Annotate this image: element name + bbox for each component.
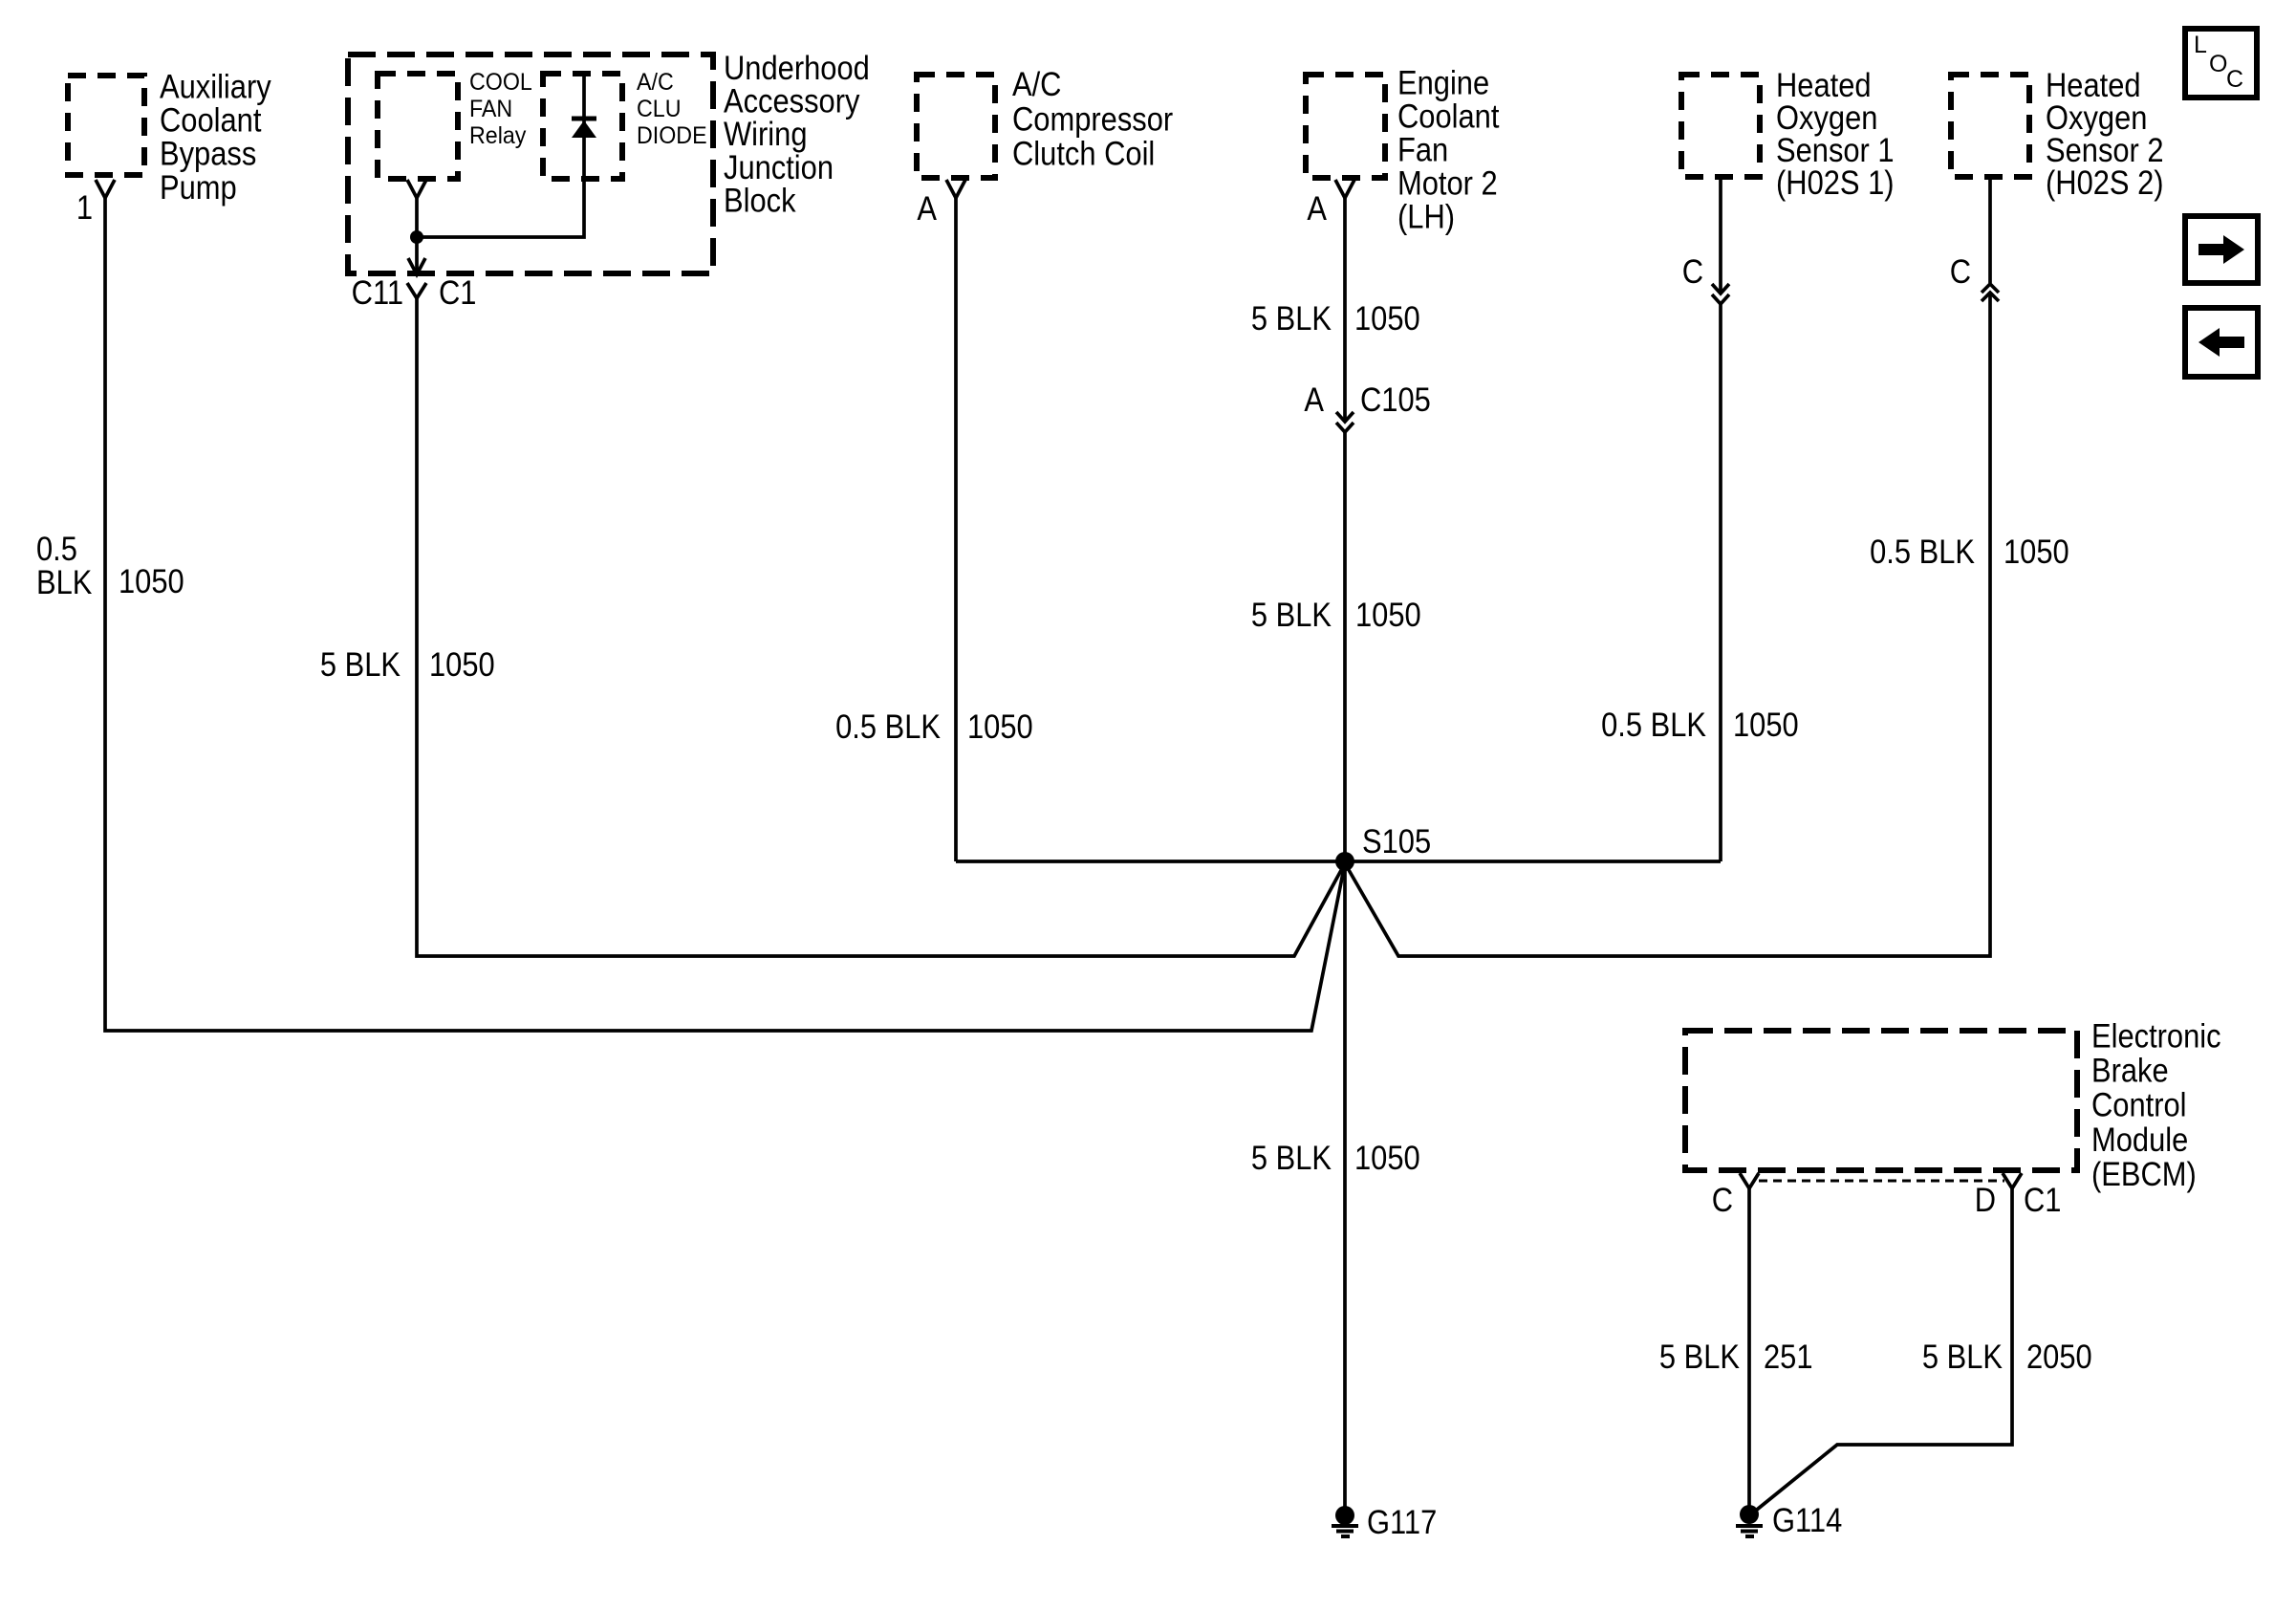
svg-text:BLK: BLK (36, 564, 92, 601)
svg-text:A/C: A/C (637, 69, 674, 96)
svg-text:D: D (1975, 1182, 1996, 1219)
svg-text:C11: C11 (352, 274, 403, 312)
svg-text:C: C (1712, 1182, 1733, 1219)
svg-text:1050: 1050 (1354, 1140, 1420, 1177)
svg-text:5 BLK: 5 BLK (1251, 597, 1332, 634)
svg-text:COOL: COOL (469, 69, 532, 96)
svg-text:O: O (2209, 51, 2227, 77)
svg-text:Brake: Brake (2091, 1053, 2169, 1090)
svg-text:Bypass: Bypass (160, 136, 256, 173)
svg-text:(H02S 2): (H02S 2) (2046, 164, 2164, 202)
svg-text:Electronic: Electronic (2091, 1017, 2221, 1055)
svg-text:A: A (917, 190, 937, 228)
svg-text:0.5 BLK: 0.5 BLK (1601, 707, 1706, 744)
svg-text:Motor 2: Motor 2 (1397, 165, 1498, 203)
svg-text:C: C (2226, 66, 2243, 93)
svg-text:Engine: Engine (1397, 65, 1489, 102)
svg-text:(H02S 1): (H02S 1) (1776, 164, 1895, 202)
svg-text:5 BLK: 5 BLK (1659, 1339, 1740, 1376)
svg-text:1050: 1050 (967, 708, 1033, 746)
svg-text:Coolant: Coolant (160, 102, 261, 140)
svg-text:Clutch Coil: Clutch Coil (1012, 136, 1155, 173)
svg-text:FAN: FAN (469, 96, 512, 122)
svg-text:5 BLK: 5 BLK (1922, 1339, 2003, 1376)
svg-text:A: A (1307, 190, 1327, 228)
svg-text:251: 251 (1764, 1339, 1813, 1376)
svg-text:1050: 1050 (119, 563, 184, 600)
svg-text:CLU: CLU (637, 96, 681, 122)
svg-text:Wiring: Wiring (724, 116, 808, 153)
svg-text:Relay: Relay (469, 122, 527, 149)
svg-text:C: C (1950, 253, 1971, 291)
svg-text:Underhood: Underhood (724, 50, 870, 87)
svg-text:Fan: Fan (1397, 132, 1448, 169)
svg-text:1050: 1050 (1733, 707, 1799, 744)
svg-text:L: L (2194, 32, 2207, 58)
svg-text:5 BLK: 5 BLK (320, 646, 401, 684)
svg-text:Pump: Pump (160, 169, 237, 207)
svg-text:Block: Block (724, 183, 796, 220)
svg-text:Accessory: Accessory (724, 83, 860, 120)
svg-text:5 BLK: 5 BLK (1251, 300, 1332, 337)
svg-text:S105: S105 (1362, 823, 1431, 860)
svg-text:1050: 1050 (429, 646, 495, 684)
svg-text:(LH): (LH) (1397, 199, 1455, 236)
svg-text:Coolant: Coolant (1397, 98, 1499, 136)
svg-text:0.5: 0.5 (36, 531, 77, 568)
svg-text:A: A (1304, 381, 1324, 419)
svg-text:G117: G117 (1367, 1504, 1437, 1541)
svg-text:5 BLK: 5 BLK (1251, 1140, 1332, 1177)
svg-text:1: 1 (76, 189, 93, 227)
svg-text:Compressor: Compressor (1012, 100, 1173, 138)
svg-text:Junction: Junction (724, 149, 834, 186)
svg-text:0.5 BLK: 0.5 BLK (835, 708, 941, 746)
svg-text:DIODE: DIODE (637, 122, 707, 149)
svg-text:1050: 1050 (2004, 533, 2069, 571)
svg-text:A/C: A/C (1012, 66, 1061, 103)
svg-text:C: C (1682, 253, 1703, 291)
svg-text:1050: 1050 (1355, 597, 1421, 634)
svg-text:C105: C105 (1360, 381, 1431, 419)
svg-text:G114: G114 (1772, 1502, 1842, 1539)
svg-text:Control: Control (2091, 1087, 2187, 1124)
svg-text:Auxiliary: Auxiliary (160, 68, 271, 105)
svg-text:1050: 1050 (1354, 300, 1420, 337)
svg-text:2050: 2050 (2026, 1339, 2092, 1376)
svg-text:Module: Module (2091, 1121, 2188, 1159)
svg-text:C1: C1 (2024, 1182, 2061, 1219)
svg-text:0.5 BLK: 0.5 BLK (1870, 533, 1975, 571)
svg-text:(EBCM): (EBCM) (2091, 1156, 2197, 1193)
svg-text:C1: C1 (439, 274, 476, 312)
